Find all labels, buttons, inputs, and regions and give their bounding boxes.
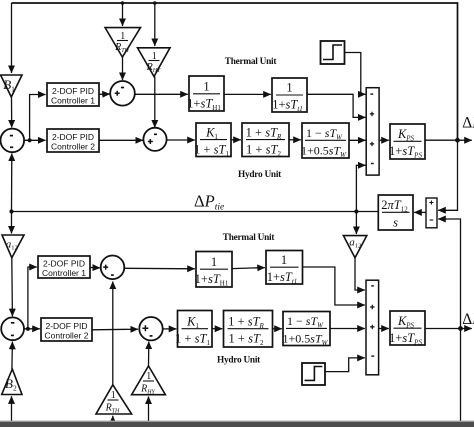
svg-text:1: 1 bbox=[120, 31, 125, 42]
svg-text:1: 1 bbox=[281, 253, 287, 267]
svg-text:Hydro Unit: Hydro Unit bbox=[217, 356, 261, 366]
svg-text:1+0.5sTW: 1+0.5sTW bbox=[283, 332, 329, 348]
svg-text:1+0.5sTW: 1+0.5sTW bbox=[301, 144, 347, 160]
svg-text:1: 1 bbox=[203, 80, 209, 94]
svg-text:1+sTPS: 1+sTPS bbox=[389, 331, 422, 347]
svg-text:Controller 2: Controller 2 bbox=[45, 331, 89, 341]
svg-text:1: 1 bbox=[111, 390, 116, 401]
svg-text:1+sTt1: 1+sTt1 bbox=[267, 270, 298, 286]
svg-text:a12: a12 bbox=[349, 237, 361, 250]
svg-text:1 − sTW: 1 − sTW bbox=[287, 314, 324, 330]
svg-text:1 + sT2: 1 + sT2 bbox=[246, 143, 281, 159]
svg-text:1: 1 bbox=[152, 51, 157, 62]
svg-text:Thermal Unit: Thermal Unit bbox=[223, 233, 276, 243]
svg-text:B1: B1 bbox=[3, 77, 15, 94]
svg-text:1+sTPS: 1+sTPS bbox=[389, 144, 422, 160]
svg-text:Controller 1: Controller 1 bbox=[51, 96, 95, 106]
svg-text:1 + sTR: 1 + sTR bbox=[228, 315, 264, 331]
svg-text:2-DOF PID: 2-DOF PID bbox=[52, 86, 94, 96]
svg-text:2-DOF PID: 2-DOF PID bbox=[45, 321, 87, 331]
svg-text:1 + sT1: 1 + sT1 bbox=[175, 332, 210, 348]
svg-text:ΔPtie: ΔPtie bbox=[194, 192, 224, 213]
svg-text:Thermal Unit: Thermal Unit bbox=[225, 57, 278, 67]
svg-text:1 − sTW: 1 − sTW bbox=[306, 126, 343, 142]
svg-text:1+sTt1: 1+sTt1 bbox=[272, 98, 303, 114]
svg-text:1 + sT2: 1 + sT2 bbox=[229, 332, 264, 348]
svg-text:KPS: KPS bbox=[397, 314, 415, 330]
svg-text:Controller 1: Controller 1 bbox=[42, 268, 86, 278]
svg-text:s: s bbox=[393, 216, 398, 230]
svg-text:1 + sT1: 1 + sT1 bbox=[194, 143, 229, 159]
svg-text:1+sTH1: 1+sTH1 bbox=[195, 272, 229, 288]
svg-text:2-DOF PID: 2-DOF PID bbox=[52, 132, 94, 142]
svg-text:1 + sTR: 1 + sTR bbox=[246, 126, 282, 142]
svg-text:Controller 2: Controller 2 bbox=[51, 142, 95, 152]
svg-text:KPS: KPS bbox=[397, 127, 415, 143]
svg-text:RTH: RTH bbox=[105, 403, 120, 415]
svg-text:ΔF1: ΔF1 bbox=[462, 114, 474, 132]
svg-text:Hydro Unit: Hydro Unit bbox=[238, 170, 282, 180]
svg-text:1+sTH1: 1+sTH1 bbox=[187, 97, 221, 113]
svg-text:K1: K1 bbox=[205, 126, 218, 142]
svg-text:ΔF2: ΔF2 bbox=[462, 311, 474, 329]
svg-text:a12: a12 bbox=[6, 239, 18, 252]
svg-text:RHY: RHY bbox=[146, 62, 161, 74]
svg-text:1: 1 bbox=[146, 371, 151, 382]
svg-text:2πT12: 2πT12 bbox=[381, 198, 408, 214]
svg-text:1: 1 bbox=[211, 255, 217, 269]
svg-text:K1: K1 bbox=[186, 315, 199, 331]
svg-text:1: 1 bbox=[286, 81, 292, 95]
svg-text:RHY: RHY bbox=[140, 384, 155, 396]
svg-text:RTH: RTH bbox=[114, 42, 129, 54]
svg-text:2-DOF PID: 2-DOF PID bbox=[43, 259, 85, 269]
